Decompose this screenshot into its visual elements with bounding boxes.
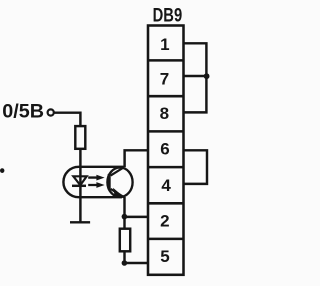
svg-text:2: 2 (160, 212, 169, 231)
svg-text:7: 7 (160, 70, 169, 89)
svg-text:1: 1 (160, 35, 169, 54)
svg-text:4: 4 (161, 176, 171, 195)
svg-text:5: 5 (160, 247, 169, 266)
svg-text:0/5В: 0/5В (2, 101, 44, 123)
svg-text:DB9: DB9 (153, 5, 183, 27)
svg-text:6: 6 (160, 139, 169, 158)
svg-text:8: 8 (160, 104, 169, 123)
